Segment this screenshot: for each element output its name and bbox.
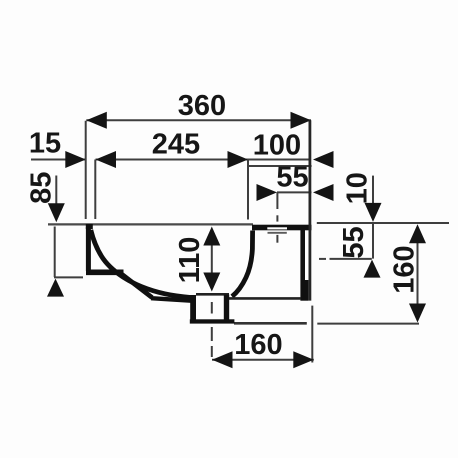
extension line 245/100 (247, 160, 249, 220)
arrow 55v up outside (364, 260, 381, 278)
arrow 110 up (203, 227, 220, 246)
arrow 15 left (65, 151, 86, 168)
svg-text:85: 85 (26, 172, 58, 204)
dim 85 line (55, 176, 57, 209)
wall line (308, 120, 311, 300)
arrow 160v down (409, 304, 426, 323)
basin front face (86, 227, 91, 271)
svg-text:55: 55 (276, 162, 308, 194)
dim 160 vertical (417, 240, 419, 306)
dim line 55 horizontal (277, 191, 312, 193)
svg-text:55: 55 (338, 226, 370, 258)
lower left tick (54, 276, 83, 278)
dim chain line 15/245/100 (31, 159, 311, 161)
connector line under 100 (248, 165, 312, 167)
dim 160 bottom (212, 359, 314, 361)
svg-text:110: 110 (174, 237, 206, 284)
arrow 160h left (212, 351, 233, 368)
svg-text:10: 10 (342, 172, 374, 204)
rim top line (48, 223, 253, 225)
tap hole gap (267, 227, 287, 229)
arrow 360 left (86, 112, 107, 129)
right reference line top (317, 222, 449, 224)
lower left extension line (54, 227, 56, 278)
arrow 245 right / 100 left (228, 151, 249, 168)
arrow 85 down (48, 203, 65, 222)
dim line 360 (86, 119, 311, 121)
arrow 15 right / 245 left (96, 151, 117, 168)
basin underside back line (229, 297, 301, 300)
arrow 55h left outside (257, 184, 278, 201)
extension line 15 right (94, 160, 96, 220)
tap deck band (252, 225, 312, 231)
dim 110 (211, 243, 213, 275)
arrow up at lower tick (47, 279, 64, 297)
arrow 100 right outside (313, 151, 334, 168)
basin underside to drain (151, 298, 193, 301)
drain boss bottom (190, 319, 235, 323)
svg-text:245: 245 (152, 129, 200, 161)
svg-text:160: 160 (234, 329, 282, 361)
bottom reference line right (317, 323, 419, 325)
basin back wall (300, 230, 305, 301)
bottom right extension (311, 306, 313, 363)
basin back lower fill (305, 280, 308, 301)
drain centerline (211, 302, 213, 357)
extension line front face (85, 121, 87, 219)
tap hole bottom line (268, 232, 287, 234)
arrow 160h right (293, 351, 314, 368)
drain boss right wall (224, 295, 229, 323)
svg-text:15: 15 (29, 128, 61, 160)
faucet centerline (276, 192, 278, 242)
dim 10 line (372, 176, 374, 204)
drain boss left wall (190, 295, 196, 323)
arrow 360 right (291, 112, 312, 129)
arrow 110 down (203, 273, 220, 292)
bowl bottom over drain (196, 293, 229, 296)
basin front top corner (86, 224, 93, 229)
arrow 160v up (409, 224, 426, 243)
bottom reference line left (234, 322, 307, 325)
dim 55 vertical line (372, 223, 374, 259)
inner bowl curve right (232, 231, 253, 297)
basin underside diagonal (122, 274, 153, 298)
inner bowl curve left (91, 230, 195, 298)
right reference line mid (319, 258, 372, 260)
arrow 10 down (365, 203, 382, 222)
svg-text:360: 360 (178, 90, 226, 122)
arrow 55h right outside (313, 184, 334, 201)
svg-text:160: 160 (389, 245, 421, 293)
svg-text:100: 100 (253, 130, 301, 162)
basin underside front flat (86, 269, 124, 275)
